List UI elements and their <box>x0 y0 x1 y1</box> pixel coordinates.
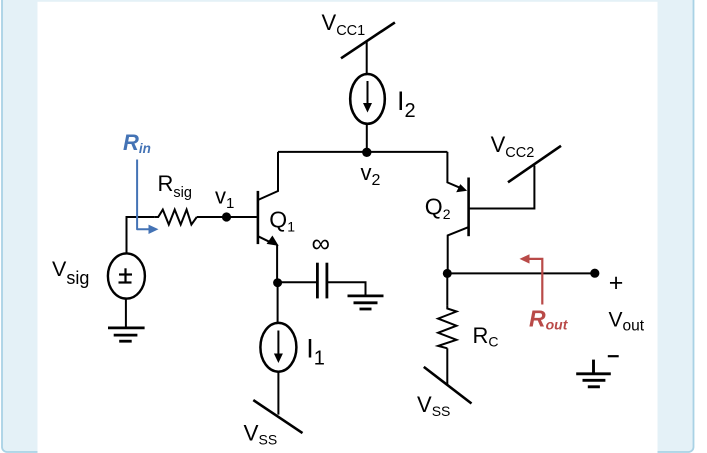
wire capacitor to ground <box>327 282 366 296</box>
wire I2 to bus <box>366 124 368 153</box>
wire node to RC <box>446 273 448 306</box>
Q2 base wire to VCC2 <box>469 166 535 209</box>
Rin probe arrow (blue) <box>137 160 150 230</box>
wire VCC1 to I2 <box>366 40 368 74</box>
svg-text:+: + <box>609 269 624 297</box>
Q1 collector <box>258 152 278 200</box>
Q1 emitter <box>258 236 272 243</box>
node output dot <box>590 269 599 278</box>
transistor Q1 base bar <box>257 191 260 244</box>
capacitor plates <box>316 263 319 299</box>
current source I2 <box>350 74 385 124</box>
wire bus to Q2 emitter <box>447 152 459 188</box>
I2 arrowhead <box>363 103 372 113</box>
current source I1 <box>260 323 296 372</box>
output wire <box>447 272 595 274</box>
wire v1 to Q1 base <box>197 216 257 218</box>
wire node to I1 <box>277 283 279 323</box>
VSS rail (RC) <box>424 367 472 404</box>
wire input top <box>127 217 155 253</box>
Q1 emitter arrowhead <box>267 236 279 246</box>
ground (Vsig) <box>108 328 145 341</box>
plus-minus symbol <box>119 268 133 282</box>
resistor RC <box>438 306 456 348</box>
ground (capacitor) <box>348 296 384 309</box>
Rout probe arrow (red) <box>528 259 543 305</box>
voltage source Vsig <box>108 253 145 298</box>
ground (output) <box>576 360 611 387</box>
wire I1 to VSS <box>277 372 279 415</box>
node output-left dot <box>443 269 452 278</box>
wire Q1 emitter down <box>276 245 278 285</box>
Q2 emitter arrowhead <box>456 184 467 192</box>
node emitter dot <box>273 278 282 287</box>
transistor Q2 base bar <box>467 178 470 237</box>
node v2 dot <box>362 148 371 157</box>
resistor Rsig <box>154 210 197 225</box>
VCC1 rail <box>341 22 395 58</box>
wire RC to VSS <box>446 348 448 385</box>
wire Vsig to ground <box>125 299 127 328</box>
VSS rail (I1) <box>253 400 302 433</box>
I1 arrowhead <box>274 354 283 364</box>
VCC2 rail <box>508 146 561 183</box>
node v1 dot <box>222 212 231 221</box>
wire bus v2 <box>278 151 447 153</box>
label minus <box>608 355 619 357</box>
wire emitter node to capacitor <box>277 281 318 283</box>
Q2 collector <box>448 227 469 273</box>
svg-text:∞: ∞ <box>312 228 331 258</box>
